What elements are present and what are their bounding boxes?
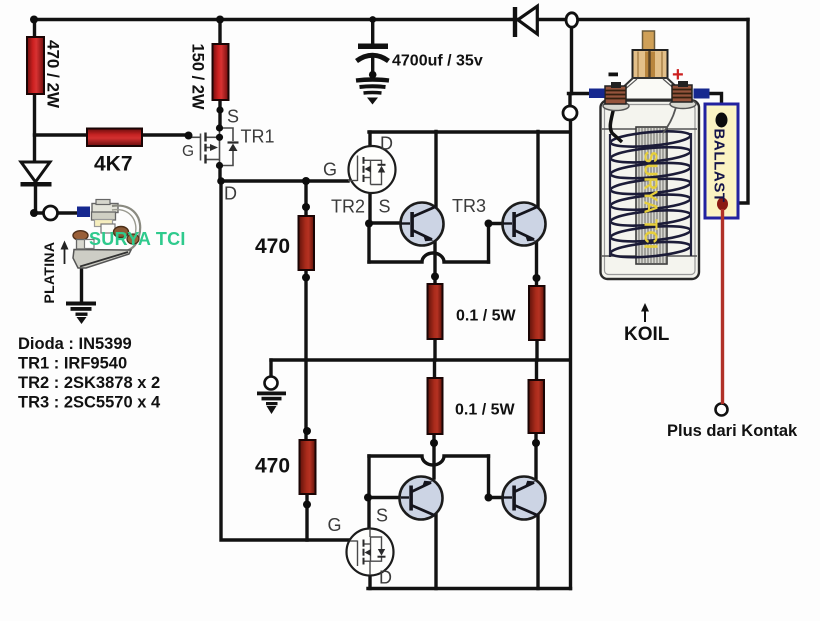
- svg-text:S: S: [227, 107, 239, 127]
- svg-text:Dioda : IN5399: Dioda : IN5399: [18, 335, 132, 353]
- svg-text:TR1: TR1: [241, 127, 275, 147]
- svg-text:150 / 2W: 150 / 2W: [189, 44, 207, 110]
- svg-text:0.1 / 5W: 0.1 / 5W: [456, 308, 516, 325]
- svg-text:PLATINA: PLATINA: [41, 242, 57, 304]
- svg-text:KOIL: KOIL: [624, 324, 670, 345]
- svg-text:SURYA TCI: SURYA TCI: [641, 151, 661, 250]
- svg-text:G: G: [328, 515, 342, 535]
- svg-text:D: D: [224, 184, 237, 204]
- svg-text:SURYA TCI: SURYA TCI: [89, 229, 186, 249]
- svg-text:Plus dari Kontak: Plus dari Kontak: [667, 422, 798, 440]
- svg-text:D: D: [380, 134, 393, 154]
- svg-text:TR2 : 2SK3878 x 2: TR2 : 2SK3878 x 2: [18, 374, 160, 392]
- svg-text:BALLAST: BALLAST: [711, 129, 728, 203]
- svg-text:D: D: [379, 568, 392, 588]
- svg-text:470: 470: [255, 455, 290, 478]
- svg-text:4700uf / 35v: 4700uf / 35v: [392, 53, 483, 70]
- svg-text:0.1 / 5W: 0.1 / 5W: [455, 402, 515, 419]
- svg-text:+: +: [672, 64, 684, 86]
- svg-text:G: G: [182, 143, 194, 160]
- svg-text:S: S: [379, 197, 391, 217]
- svg-text:G: G: [323, 160, 337, 180]
- svg-text:TR1 : IRF9540: TR1 : IRF9540: [18, 355, 127, 373]
- svg-text:470: 470: [255, 235, 290, 258]
- svg-text:470 / 2W: 470 / 2W: [44, 40, 63, 109]
- svg-text:TR3 : 2SC5570 x 4: TR3 : 2SC5570 x 4: [18, 394, 161, 412]
- svg-text:S: S: [376, 506, 388, 526]
- svg-text:TR3: TR3: [452, 196, 486, 216]
- svg-text:4K7: 4K7: [94, 153, 133, 176]
- svg-text:TR2: TR2: [331, 197, 365, 217]
